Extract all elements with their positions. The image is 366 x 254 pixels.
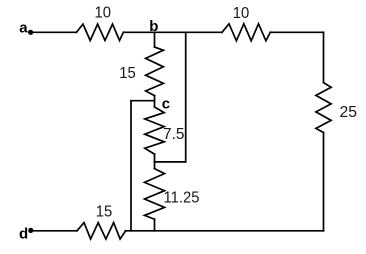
resistor R2 15 (vertical b to c): [146, 47, 164, 96]
terminal a dot: [28, 30, 33, 35]
wire c down to R4: [154, 101, 156, 107]
wire mid node right: [155, 161, 186, 163]
svg-text:10: 10: [94, 5, 111, 22]
svg-text:a: a: [19, 19, 28, 36]
svg-text:c: c: [162, 95, 170, 112]
resistor R6 15 (bottom): [77, 223, 126, 239]
wire bottom to right corner: [126, 230, 324, 232]
wire a to R1: [32, 31, 76, 33]
terminal d dot: [28, 228, 33, 233]
resistor R3 10 (top right): [222, 24, 270, 41]
svg-text:15: 15: [96, 203, 113, 220]
wire right vertical upper: [323, 32, 325, 82]
wire R1 to node b to junction to R3: [123, 31, 222, 33]
svg-text:10: 10: [233, 5, 250, 22]
svg-text:d: d: [19, 225, 28, 242]
wire left branch vertical: [130, 101, 132, 231]
resistor R7 11.25 (vertical bottom): [145, 169, 165, 220]
resistor R1 10 (top left): [76, 24, 123, 40]
resistor R5 25 (right vertical): [316, 83, 331, 133]
wire right vertical lower: [323, 133, 325, 231]
wire node c left: [131, 100, 155, 102]
svg-text:b: b: [149, 18, 158, 35]
resistor R4 7.5 (vertical below c): [145, 107, 164, 154]
svg-text:25: 25: [340, 104, 358, 121]
wire R3 to top right corner: [270, 31, 323, 33]
wire R7 to bottom wire: [154, 219, 156, 231]
wire d to R6: [32, 230, 77, 232]
svg-text:11.25: 11.25: [164, 190, 200, 207]
wire R2 to node c: [154, 96, 156, 101]
wire mid node down to R7: [154, 162, 156, 169]
wire mid-right vertical to top: [185, 32, 187, 162]
svg-text:15: 15: [119, 65, 136, 82]
wire R4 to mid node: [154, 154, 156, 162]
svg-text:7.5: 7.5: [163, 126, 185, 143]
wire b down to R2: [154, 32, 156, 47]
